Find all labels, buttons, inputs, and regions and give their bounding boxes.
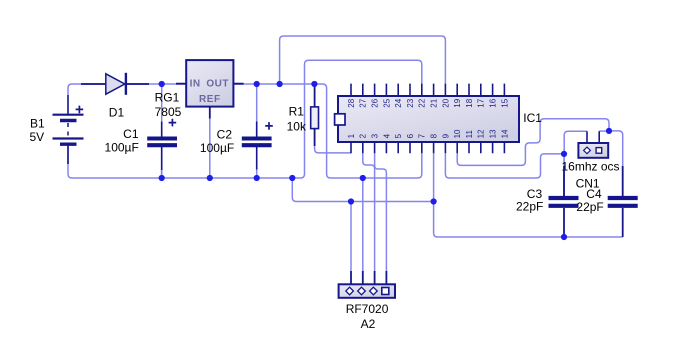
wire crystal pin 1 to C3 — [564, 131, 587, 198]
svg-text:5V: 5V — [30, 130, 45, 144]
svg-text:A2: A2 — [361, 317, 376, 331]
svg-text:100µF: 100µF — [200, 141, 234, 155]
node REF ground — [207, 175, 213, 181]
svg-text:20: 20 — [441, 98, 450, 107]
wire ground branch to lower ground line — [292, 178, 433, 202]
capacitor C2 — [200, 84, 273, 178]
svg-text:3: 3 — [371, 133, 380, 138]
svg-text:9: 9 — [441, 133, 450, 138]
svg-text:1: 1 — [347, 133, 356, 138]
svg-text:100µF: 100µF — [105, 141, 139, 155]
svg-text:15: 15 — [500, 98, 509, 107]
battery B1 — [30, 95, 84, 164]
svg-text:RG1: RG1 — [155, 90, 180, 104]
IC1 bottom pin numbers — [347, 129, 509, 138]
capacitor C3 — [516, 166, 579, 237]
svg-text:24: 24 — [394, 98, 403, 107]
svg-text:17: 17 — [477, 98, 486, 107]
svg-text:5: 5 — [394, 133, 403, 138]
svg-text:28: 28 — [347, 98, 356, 107]
svg-text:11: 11 — [465, 130, 474, 139]
svg-text:13: 13 — [489, 129, 498, 138]
svg-text:C4: C4 — [586, 187, 602, 201]
wire connector pin B to VCC line — [362, 178, 364, 271]
IC1 top pin numbers — [347, 98, 509, 107]
wire 5V rail from battery to regulator IN — [68, 84, 186, 95]
node pin8 ground — [431, 198, 437, 204]
svg-text:10: 10 — [453, 129, 462, 138]
svg-text:27: 27 — [359, 98, 368, 107]
IC IC1 body — [335, 96, 543, 142]
wire IC pin 2 to connector pin C — [363, 153, 375, 271]
svg-text:22pF: 22pF — [516, 200, 543, 214]
svg-text:R1: R1 — [289, 105, 305, 119]
diode D1 — [81, 73, 149, 120]
wire regulator OUT to VCC pin 7 of IC1 — [233, 84, 421, 178]
wire crystal node to C4 — [609, 131, 623, 198]
svg-text:C1: C1 — [123, 127, 139, 141]
wire AVCC loop from 5V rail to pin 20 — [280, 36, 446, 84]
wire ground rail from battery to pin 22 loop — [68, 60, 422, 178]
node C1 ground — [159, 175, 165, 181]
wire REF pin to ground rail — [209, 119, 211, 178]
regulator RG1 7805 — [155, 60, 244, 119]
svg-text:C2: C2 — [217, 127, 233, 141]
connector A2 RF7020 — [339, 271, 395, 331]
svg-text:10k: 10k — [287, 119, 307, 133]
IC1 top pin stubs 28..15 — [351, 84, 504, 96]
svg-text:8: 8 — [430, 133, 439, 138]
svg-text:19: 19 — [453, 98, 462, 107]
capacitor C4 — [576, 166, 637, 237]
svg-text:25: 25 — [382, 98, 391, 107]
node junction dots — [159, 81, 613, 240]
node VCC connector B — [360, 175, 366, 181]
wire IC pin 10 XTAL2 staircase to crystal pin 2 node — [457, 119, 609, 166]
svg-text:4: 4 — [382, 133, 391, 138]
wire pin 8 ground down and east to C3 C4 ground — [434, 153, 623, 237]
capacitor C1 — [105, 84, 177, 178]
svg-text:26: 26 — [371, 98, 380, 107]
node R1 top — [311, 81, 317, 87]
node D1-RG1-C1 — [159, 81, 165, 87]
node XTAL1 C3 — [561, 151, 567, 157]
svg-text:18: 18 — [465, 98, 474, 107]
svg-text:12: 12 — [477, 129, 486, 138]
wire R1 bottom to pin 1 — [315, 129, 351, 153]
svg-text:RF7020: RF7020 — [346, 302, 389, 316]
svg-text:6: 6 — [406, 133, 415, 138]
svg-text:IN: IN — [190, 79, 201, 90]
svg-text:16: 16 — [489, 98, 498, 107]
wire crystal pin 2 link — [599, 130, 609, 132]
svg-text:23: 23 — [406, 98, 415, 107]
IC1 bottom pin stubs 1..14 — [351, 142, 504, 153]
node C3 ground — [561, 234, 567, 240]
svg-text:14: 14 — [500, 129, 509, 138]
node AVCC tap — [277, 81, 283, 87]
svg-text:22: 22 — [418, 98, 427, 107]
wire IC pin 9 XTAL1 to crystal node — [445, 153, 564, 178]
svg-text:IC1: IC1 — [523, 111, 542, 125]
node OUT-C2 — [254, 81, 260, 87]
svg-text:16mhz ocs: 16mhz ocs — [562, 160, 620, 174]
svg-text:2: 2 — [359, 133, 368, 138]
node XTAL2 C4 — [606, 128, 612, 134]
wire connector pin A to ground line — [350, 202, 352, 272]
svg-text:OUT: OUT — [206, 79, 229, 90]
svg-text:REF: REF — [199, 94, 221, 105]
crystal CN1 16mhz — [562, 131, 620, 190]
svg-text:D1: D1 — [109, 106, 125, 120]
node connector A ground — [348, 198, 354, 204]
node C2 ground — [254, 175, 260, 181]
wire IC pin 3 to connector pin D — [375, 153, 387, 271]
svg-text:7805: 7805 — [155, 105, 182, 119]
resistor R1 — [287, 87, 319, 146]
svg-text:7: 7 — [418, 133, 427, 138]
svg-text:22pF: 22pF — [576, 200, 603, 214]
svg-text:B1: B1 — [30, 116, 45, 130]
svg-text:21: 21 — [430, 98, 439, 107]
node ground branch — [289, 175, 295, 181]
